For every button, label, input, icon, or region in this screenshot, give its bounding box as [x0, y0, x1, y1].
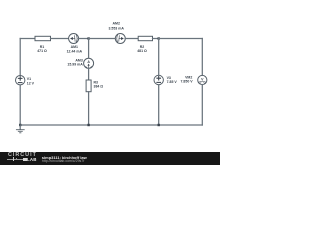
- node A junction dot: [87, 37, 89, 39]
- svg-text:7.850 V: 7.850 V: [181, 80, 194, 84]
- wire V1 down to bottom rail: [19, 85, 21, 125]
- wire AM3 to R3: [88, 68, 90, 80]
- node R3-rail junction dot: [87, 124, 89, 126]
- wire node A to AM2: [89, 38, 116, 40]
- wire R3 down to bottom rail: [88, 92, 90, 125]
- wire R1 to AM1: [51, 38, 69, 40]
- footer title text: [42, 155, 87, 160]
- wire R2 to node B: [153, 38, 159, 40]
- wire node A down to AM3: [88, 39, 90, 59]
- wire AM2 to R2: [125, 38, 138, 40]
- wire node B down to V3: [158, 39, 160, 76]
- ammeter AM2: [109, 22, 126, 44]
- footer logo CIRCUIT LAB: [8, 153, 42, 158]
- footer bar: [0, 152, 220, 165]
- wire right vertical down to VM2: [201, 39, 203, 76]
- svg-text:12 V: 12 V: [27, 81, 35, 85]
- wire AM1 to node A: [78, 38, 88, 40]
- ammeter AM1: [67, 34, 83, 54]
- wire node B to top-right corner: [159, 38, 203, 40]
- svg-text:7.85 V: 7.85 V: [167, 80, 178, 84]
- svg-text:471 Ω: 471 Ω: [37, 49, 47, 53]
- svg-text:384 Ω: 384 Ω: [94, 85, 104, 89]
- wire V3 down to bottom rail: [158, 85, 160, 125]
- resistor R2: [137, 36, 152, 53]
- wire VM2 down to bottom rail: [201, 85, 203, 125]
- svg-text:15.99 mA: 15.99 mA: [67, 63, 83, 67]
- voltage source V3: [154, 75, 177, 84]
- footer url text: [42, 159, 84, 163]
- svg-text:AM1: AM1: [71, 45, 78, 49]
- wire top-left vertical from V1 up: [19, 39, 21, 76]
- voltmeter VM2: [181, 75, 207, 84]
- bottom rail wire: [20, 124, 202, 126]
- node B junction dot: [158, 37, 160, 39]
- ground: [16, 125, 24, 133]
- resistor R3: [86, 80, 103, 92]
- wire top horizontal V1 to R1: [20, 38, 35, 40]
- ammeter AM3: [67, 58, 93, 68]
- svg-text:12.44 mA: 12.44 mA: [67, 49, 83, 53]
- voltage source V1: [16, 76, 35, 86]
- svg-text:3.553 mA: 3.553 mA: [109, 26, 125, 30]
- ground node junction dot: [19, 124, 21, 126]
- resistor R1: [35, 36, 51, 53]
- svg-text:AM2: AM2: [113, 22, 120, 26]
- node V3-rail junction dot: [158, 124, 160, 126]
- svg-text:481 Ω: 481 Ω: [137, 49, 147, 53]
